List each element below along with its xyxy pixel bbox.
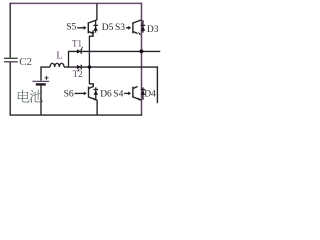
svg-text:D4: D4 xyxy=(144,89,156,99)
wire left rail (C2 branch) xyxy=(9,3,11,115)
wire bottom DC rail xyxy=(10,114,143,116)
svg-text:S6: S6 xyxy=(64,89,74,99)
node junction on T2 line xyxy=(88,65,92,69)
capacitor C2 xyxy=(4,58,18,62)
label 电池 (battery) xyxy=(18,90,43,103)
svg-text:D3: D3 xyxy=(147,25,159,35)
diode D6 (antiparallel) xyxy=(94,87,99,99)
thyristor T2 xyxy=(77,65,81,71)
wire T1/output line (upper mid rail) xyxy=(68,50,160,52)
wire T2/output line (lower mid rail) xyxy=(64,66,158,68)
wire S5 collector lead from top rail xyxy=(96,3,98,20)
transistor S5 xyxy=(77,20,97,36)
battery (cell symbol) xyxy=(32,66,49,115)
wire left connector T1-T2 xyxy=(68,51,70,67)
svg-text:D6: D6 xyxy=(100,89,112,99)
transistor S6 xyxy=(75,84,97,101)
wire T2 output stub down xyxy=(156,66,158,103)
wire S6 emitter lead to bottom rail xyxy=(96,100,98,115)
svg-text:D5: D5 xyxy=(102,23,114,33)
svg-text:S5: S5 xyxy=(66,23,76,33)
svg-text:T1: T1 xyxy=(72,38,82,48)
svg-text:L: L xyxy=(56,51,62,62)
wire top DC rail xyxy=(10,2,142,4)
battery plus sign xyxy=(45,76,49,80)
node junction on T1 line at right leg xyxy=(140,49,144,53)
transistor S4 xyxy=(124,87,141,101)
wire right bridge leg (S3/S4 leg) xyxy=(141,3,143,115)
wire mid vertical (S5 emitter to S6 collector) xyxy=(88,36,90,85)
svg-text:S3: S3 xyxy=(115,23,125,33)
svg-text:T2: T2 xyxy=(73,69,83,79)
inductor L xyxy=(41,63,64,67)
diode D4 (antiparallel) xyxy=(141,87,146,99)
thyristor T1 xyxy=(77,47,83,54)
svg-text:S4: S4 xyxy=(113,89,123,99)
diode D3 (antiparallel) xyxy=(141,20,146,32)
transistor S3 xyxy=(126,20,141,35)
diode D5 (antiparallel) xyxy=(93,20,98,32)
svg-text:C2: C2 xyxy=(19,56,32,68)
